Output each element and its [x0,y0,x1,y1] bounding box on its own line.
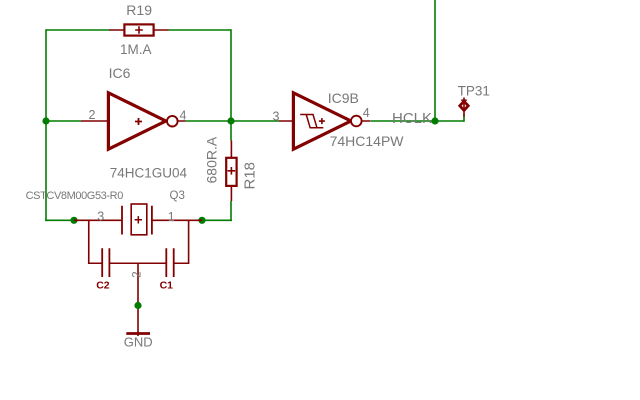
op-amp U2: schmitt inverter IC9B [279,93,370,149]
junction node Q3 pin1 [198,217,205,224]
svg-text:2: 2 [132,271,144,277]
wire bottom left segment [45,219,74,221]
wire right rail upper vertical [230,29,232,121]
svg-text:HCLK: HCLK [392,110,432,127]
svg-text:CSTCV8M00G53-R0: CSTCV8M00G53-R0 [26,190,124,202]
svg-text:3: 3 [97,209,104,223]
wire IC6 output to junction [186,120,232,122]
resonator Q3 [74,204,202,302]
wire R18 to bottom corner [230,201,232,221]
ground [126,309,150,336]
wire bottom right segment [202,219,232,221]
resistor R19 [109,24,168,35]
wire right rail to R18 [230,121,232,141]
svg-text:2: 2 [89,108,96,122]
svg-text:4: 4 [180,109,187,123]
wire TP31 riser [463,115,465,122]
wire IC9B output HCLK run [371,120,465,122]
junction node Q3 pin3 [70,217,77,224]
junction node at IC6 output rail [227,117,234,124]
junction node GND [134,302,141,309]
svg-text:74HC14PW: 74HC14PW [330,133,405,149]
svg-text:IC6: IC6 [109,65,131,81]
svg-text:3: 3 [273,109,280,123]
op-amp U1: inverter IC6 [81,93,186,149]
svg-text:C2: C2 [96,280,110,292]
test point TP31 [460,98,468,117]
wire left rail vertical [45,29,47,221]
wire vertical to top edge [434,0,436,121]
svg-text:R18: R18 [242,162,259,190]
wire top-left horizontal [46,29,110,31]
wire top-right horizontal [168,29,231,31]
svg-text:4: 4 [363,106,370,120]
svg-text:GND: GND [124,335,153,350]
resistor R18 [226,141,236,202]
svg-text:1M.A: 1M.A [120,42,152,57]
wire GND stub [137,302,139,310]
junction node at IC6 input [42,117,49,124]
wire junction to IC9B input [231,120,279,122]
svg-text:C1: C1 [160,280,174,292]
svg-text:1: 1 [168,210,175,224]
svg-text:R19: R19 [126,2,152,18]
svg-text:IC9B: IC9B [328,90,359,106]
junction node at HCLK [431,117,438,124]
svg-text:TP31: TP31 [458,84,490,99]
svg-text:74HC1GU04: 74HC1GU04 [110,166,188,181]
svg-text:Q3: Q3 [170,190,185,202]
wire IC6 input [46,120,81,122]
svg-text:680R.A: 680R.A [204,136,220,183]
